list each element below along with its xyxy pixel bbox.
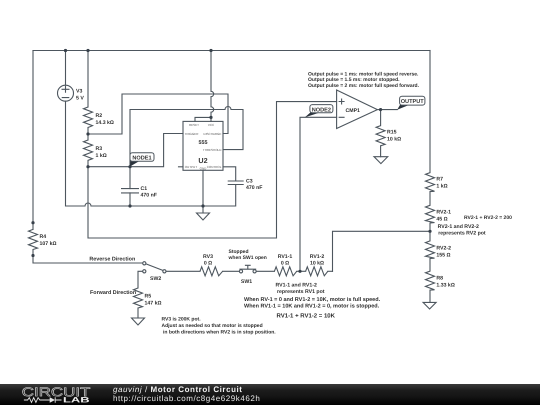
svg-text:R7: R7 [436,176,443,182]
junction dot V3 top [64,49,67,52]
wire R5 to ground [137,308,139,318]
wire NODE1 to THRESHOLD (line C) [130,107,243,167]
svg-text:1 kΩ: 1 kΩ [96,153,107,159]
svg-text:RV2-2: RV2-2 [436,246,451,252]
svg-text:V3: V3 [76,89,82,95]
wire comparator minus / NODE2 vertical [300,117,337,271]
svg-text:155 Ω: 155 Ω [436,253,450,259]
wire R4 bottom to SW2 reverse [33,250,143,264]
wire top rail [33,50,430,52]
junction dot R3 bottom [86,165,89,168]
wire comparator output [377,109,397,111]
svg-text:GND: GND [200,167,208,171]
svg-text:1.33 kΩ: 1.33 kΩ [436,283,454,289]
svg-text:in both directions when RV2 is: in both directions when RV2 is in stop p… [163,330,276,336]
wire R8 to ground [429,290,431,302]
wire NODE1 horizontal [88,134,183,167]
svg-text:470 nF: 470 nF [141,193,157,199]
svg-text:5 V: 5 V [76,96,84,102]
wire left rail [32,51,34,230]
svg-text:R2: R2 [96,113,103,119]
wire C1 top [129,167,131,189]
svg-text:RV3: RV3 [203,254,213,260]
svg-text:10 kΩ: 10 kΩ [387,136,401,142]
svg-text:R8: R8 [436,276,443,282]
svg-text:C3: C3 [246,178,253,184]
svg-text:RV1-2: RV1-2 [310,254,325,260]
svg-text:DISCHARGE: DISCHARGE [204,132,222,136]
wire VCC rail branch with hops [211,51,214,118]
resistor RV1-1 [274,267,296,276]
resistor R3 [84,140,93,160]
svg-text:SW2: SW2 [150,276,161,282]
capacitor C1 [121,189,139,193]
svg-text:NODE2: NODE2 [312,107,331,113]
svg-text:R3: R3 [96,146,103,152]
svg-text:THRESHOLD: THRESHOLD [203,148,222,152]
resistor RV2-1 [426,205,435,223]
ground below 555 [197,213,210,220]
wire RV1-2 to corner [328,270,333,272]
svg-text:represents RV2 pot: represents RV2 pot [438,231,486,237]
svg-text:Output pulse = 2 ms: motor ful: Output pulse = 2 ms: motor full speed fo… [308,83,420,89]
svg-text:when SW1 open: when SW1 open [228,255,267,261]
ground below R5 [132,318,145,325]
svg-text:VCC: VCC [208,123,215,127]
svg-text:CONTROL: CONTROL [207,165,222,169]
wire C1 bottom [129,193,131,206]
svg-text:RV2-1 and RV2-2: RV2-1 and RV2-2 [438,224,479,230]
wire RESET [195,117,211,121]
svg-text:555: 555 [199,140,208,146]
svg-text:470 nF: 470 nF [246,185,262,191]
node flag NODE1 [130,153,154,167]
ground below R8 [423,302,436,309]
wire SW1 to RV1-1 [256,270,274,272]
svg-text:107 kΩ: 107 kΩ [40,241,57,247]
svg-text:RV2-1 + RV2-2 = 200: RV2-1 + RV2-2 = 200 [464,215,512,221]
svg-text:OUTPUT: OUTPUT [401,99,425,105]
ground below R15 [374,157,388,164]
svg-text:1 kΩ: 1 kΩ [436,183,447,189]
junction dot 555 gnd [201,204,204,207]
junction dot RV2 wiper [428,230,431,233]
resistor R4 [29,229,38,249]
wire 555 OUTPUT stub [179,166,184,168]
svg-text:C1: C1 [141,186,148,192]
svg-text:Reverse Direction: Reverse Direction [89,257,135,263]
resistor RV1-2 [306,267,328,276]
wire SW2 forward to R5 [138,271,143,288]
junction dot RESET-VCC [209,116,212,119]
svg-text:R15: R15 [387,129,397,135]
svg-text:LAB: LAB [63,395,90,404]
svg-text:RV1-1 and RV1-2: RV1-1 and RV1-2 [276,283,317,289]
svg-text:TRIGGER: TRIGGER [185,132,200,136]
svg-text:RESET: RESET [189,123,199,127]
svg-text:RV2-1: RV2-1 [436,210,451,216]
svg-text:R5: R5 [145,294,152,300]
svg-text:0 Ω: 0 Ω [281,261,289,267]
switch SW2 [143,262,146,265]
svg-text:When RV-1 = 0 and RV1-2 = 10K,: When RV-1 = 0 and RV1-2 = 10K, motor is … [244,297,381,303]
svg-text:0 Ω: 0 Ω [204,261,212,267]
wire R3 bottom / NODE1 down branch [88,102,337,238]
terminal dot R4 bottom [31,254,34,257]
node flag OUTPUT [397,96,425,110]
svg-text:OUTPUT: OUTPUT [185,165,198,169]
svg-text:45 Ω: 45 Ω [436,217,447,223]
wire RV2-1 to RV2-2 [429,223,431,241]
wire CONTROL to C3 [223,167,236,181]
wire R7 to RV2-1 [429,192,431,206]
wire DISCHARGE (line B) [88,94,228,134]
wire SW2 pole to RV3 [166,270,200,272]
footer bar [0,384,540,405]
555 U2 box [183,121,223,170]
wire R2-R3 junction [87,128,89,141]
op-amp CMP1 [337,90,378,129]
svg-text:SW1: SW1 [241,279,252,285]
wire RV3 to SW1 [223,270,240,272]
svg-text:147 kΩ: 147 kΩ [145,301,162,307]
wire RV2 wiper [333,231,431,271]
resistor RV3 [200,267,223,276]
resistor R7 [426,173,435,192]
footer title text [113,385,243,394]
resistor R8 [426,271,435,290]
voltage source V3 [58,85,74,101]
wire RV1-1 to RV1-2 [297,270,306,272]
junction dot comparator output [379,108,382,111]
svg-text:U2: U2 [198,156,207,165]
node flag NODE2 [305,105,333,118]
svg-text:CMP1: CMP1 [346,108,361,114]
svg-text:RV1-1 + RV1-2 = 10K: RV1-1 + RV1-2 = 10K [277,312,336,319]
capacitor C3 [228,181,244,185]
wire 555 GND [202,170,204,213]
svg-text:RV1-1: RV1-1 [278,254,293,260]
resistor R2 [84,107,93,128]
svg-text:NODE1: NODE1 [132,156,151,162]
resistor RV2-2 [426,241,435,259]
wire R15 branch [380,110,382,157]
wire RV2-2 to R8 [429,259,431,272]
wire V3 bottom / ground rail [66,101,236,206]
svg-text:RV3 is 200K pot.: RV3 is 200K pot. [162,317,202,323]
wire R2 top [87,51,89,108]
svg-text:Stopped: Stopped [229,249,249,255]
junction dot VCC rail [209,49,212,52]
svg-text:10 kΩ: 10 kΩ [310,261,324,267]
junction dot R2 top rail [86,49,89,52]
wire V3 top [65,51,67,86]
junction dot NODE2 chain [298,270,301,273]
pushbutton SW1 [239,270,242,273]
svg-text:14.3 kΩ: 14.3 kΩ [96,120,114,126]
wire right rail [429,51,431,173]
footer url text [113,394,260,403]
svg-text:Forward Direction: Forward Direction [90,290,136,296]
terminal dot R4 top [31,221,34,224]
svg-text:When RV1-1 = 10K and RV1-2 = 0: When RV1-1 = 10K and RV1-2 = 0, motor is… [244,304,380,310]
svg-text:Adjust as needed so that motor: Adjust as needed so that motor is stoppe… [162,323,263,329]
junction dot NODE1 [128,165,131,168]
junction dot R2-R3 [86,132,89,135]
resistor R5 [134,288,143,308]
svg-text:R4: R4 [40,234,47,240]
footer logo [22,385,91,404]
svg-text:represents RV1 pot: represents RV1 pot [277,289,325,295]
resistor R15 [376,126,385,146]
junction dot C1 ground [128,204,131,207]
